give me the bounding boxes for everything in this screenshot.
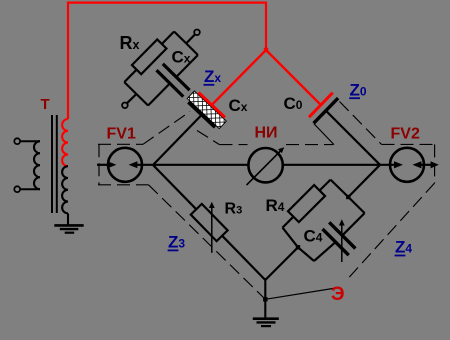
wire: primary top stub	[20, 140, 40, 142]
transformer T : primary winding terminal (top)	[14, 138, 20, 144]
wire: bottom node to ground	[264, 278, 266, 318]
wire: Rc corner to V4	[186, 43, 198, 55]
wire: corner to C4 upper plate	[342, 213, 364, 235]
shield (dashed) : from C0 plate down to FV2 box	[340, 102, 382, 145]
wire: R4 box to lower corner	[283, 217, 294, 228]
wire: V2 to Cx lower plate	[148, 83, 170, 105]
transformer T : secondary winding lower half (black)	[62, 166, 68, 213]
shield (dashed) : horizontal right of NI	[286, 144, 333, 146]
svg-text:Э: Э	[331, 284, 345, 305]
shield : solid line to ground junction	[265, 288, 339, 300]
branch Z3: wire left node to R3	[153, 165, 196, 209]
resistor Rx box	[132, 39, 167, 74]
wire: A stub to split V1	[127, 94, 136, 103]
svg-text:FV1: FV1	[107, 125, 136, 142]
shield (dashed) : diagonal up to Cx guard	[143, 112, 190, 145]
R3 variable arrow	[211, 207, 213, 253]
wire: J2 to bottom node	[265, 247, 298, 280]
wire: secondary bottom to ground	[67, 213, 69, 224]
shield (dashed) : FV1 box bottom	[98, 184, 149, 186]
shield (dashed) : left diagonal along Z3	[149, 185, 266, 299]
shield (dashed) : FV1 box top	[98, 143, 143, 145]
wire: R3 to bottom node	[222, 236, 265, 280]
shield (dashed) : FV2 box right	[434, 144, 436, 183]
capacitor C4 upper plate	[329, 222, 355, 248]
arrester FV2 left arrow	[394, 161, 403, 168]
resistor R3 box	[191, 204, 228, 241]
wire: Rx box to C2	[162, 32, 174, 45]
wire: V1 to V2 (Cx branch corner)	[136, 94, 148, 106]
wire: C0 bottom plate to right bridge node	[326, 111, 380, 165]
node: bridge top node (red)	[264, 48, 268, 52]
terminal A (bottom-left)	[122, 103, 128, 109]
capacitor Cx (object) upper plate	[163, 64, 190, 90]
node J2	[296, 245, 300, 249]
wire: bridge horizontal FV1 to NI	[137, 164, 248, 166]
wire: Cx bottom plate to left bridge node	[153, 115, 202, 165]
svg-text:FV2: FV2	[391, 125, 420, 142]
shield (dashed) : FV2 box top	[382, 143, 435, 145]
resistor R4 box	[288, 185, 325, 222]
wire: corner to J2	[298, 247, 314, 261]
wire: V1 to C1 (Rx branch corner)	[124, 82, 136, 94]
transformer T : core	[51, 115, 53, 213]
wire: red supply loop from transformer secondary top to bridge top node	[68, 3, 266, 119]
null indicator NI arrow	[247, 150, 282, 185]
wire: bridge horizontal left stub	[97, 164, 110, 166]
shield (dashed) : right diagonal along Z4	[348, 183, 435, 279]
wire: red diagonal to Cx top plate	[213, 50, 267, 104]
transformer T : secondary winding upper half (red)	[62, 119, 68, 166]
wire: V4 stub to B	[186, 34, 195, 43]
node: shield junction	[263, 297, 267, 301]
shield (dashed) : diagonal down from Cx guard	[197, 131, 220, 145]
wire: corner to R4 box	[320, 180, 331, 191]
null indicator NI circle	[248, 148, 282, 182]
wire: C4 lower plate to corner	[314, 242, 336, 261]
terminal B (top-right)	[194, 30, 200, 36]
ground (bridge)	[253, 319, 279, 326]
svg-text:Т: Т	[41, 96, 50, 113]
wire: red diagonal to C0 top plate	[266, 50, 321, 105]
wire: bridge horizontal NI to FV2	[283, 164, 394, 166]
arrester FV2 right arrow	[412, 161, 421, 168]
capacitor C0 bottom plate (black)	[314, 98, 339, 123]
arrester FV1 left arrow	[108, 161, 117, 168]
shield : pocket up to C0 bottom plate	[314, 124, 334, 145]
wire: primary bottom stub	[20, 188, 40, 190]
shield (dashed) : horizontal left of NI	[220, 144, 248, 146]
capacitor Cx (object) lower plate	[157, 70, 184, 96]
C4 variable arrow	[341, 225, 343, 263]
capacitor Cx (measuring) bottom plate (black)	[189, 102, 216, 127]
branch Z4: wire right node to J1	[348, 165, 380, 197]
arrester FV1 right arrow	[129, 161, 138, 168]
ground (transformer)	[54, 225, 83, 232]
arrester FV1 circle	[108, 148, 142, 182]
wire: C1 to Rx box	[124, 70, 136, 83]
transformer T : primary winding coil	[34, 141, 40, 189]
wire: Cx upper plate to Rc corner	[176, 55, 198, 77]
wire: J1 to C4 branch corner	[348, 197, 364, 213]
capacitor Cx (measuring) top plate (red)	[199, 93, 226, 118]
svg-text:НИ: НИ	[255, 125, 278, 142]
shield (dashed) : FV1 box left	[98, 144, 100, 185]
transformer T : primary winding terminal (bottom)	[14, 186, 20, 192]
wire: bridge right stub with outward arrow	[421, 164, 432, 166]
capacitor C0 top plate (red)	[309, 93, 333, 118]
wire: lower corner to J2	[283, 228, 299, 248]
wire: C2 to V4	[174, 32, 186, 44]
arrester FV2 circle	[390, 148, 424, 182]
capacitor C4 lower plate	[323, 229, 349, 255]
node J1	[346, 195, 350, 199]
wire: J1 to R4 branch corner	[331, 180, 349, 197]
shield electrode (hatched guard) of measuring capacitor Cx	[138, 43, 275, 177]
